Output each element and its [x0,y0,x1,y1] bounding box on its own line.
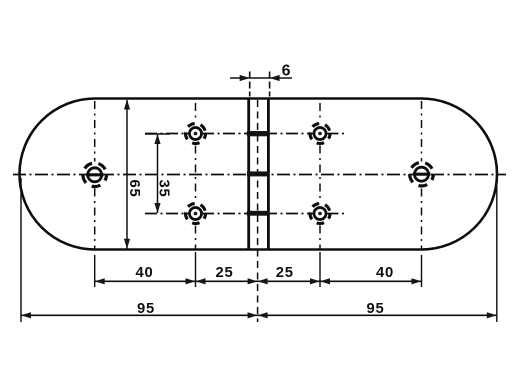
svg-text:40: 40 [135,265,153,281]
small hole bottom-right dashed ring [310,204,330,224]
row2 arrow at left [21,312,31,318]
knuckle band middle [247,171,270,176]
vertical centerline left small holes [195,103,197,122]
row1 arrows at x195.5 [186,278,196,284]
extension below left big hole [94,255,96,287]
vertical centerline right small holes [319,103,321,122]
row1 arrow at x421.5 [412,278,422,284]
dim 6 arrow right-pointing [240,75,250,81]
knuckle band bottom [247,211,270,216]
dim row1 line [95,280,422,282]
extension below right big hole [421,255,423,287]
plate outline [19,99,497,250]
dim row2 line [21,314,497,316]
svg-text:40: 40 [376,265,394,281]
thick centerline bar across right big hole [413,173,431,176]
dim 6 line [230,77,292,79]
big hole right circle [415,167,429,181]
dim 35 arrow up [154,134,160,144]
row1 arrows at center [248,278,258,284]
dim 65 arrow down [124,239,130,249]
extension below left small holes [195,252,197,287]
vertical centerline right big hole [421,101,423,162]
knuckle extension line right (for 6 dim) [269,72,271,97]
small hole top-left circle [190,128,202,140]
svg-text:25: 25 [276,265,294,281]
row2 arrow at right [487,312,497,318]
big hole left circle [88,168,102,182]
svg-text:65: 65 [126,179,142,197]
hinge pin centerline [257,100,259,322]
knuckle extension line left (for 6 dim) [249,72,251,97]
big hole right dashed ring [410,162,434,186]
extension line plate right tangent [496,178,498,322]
big hole left dashed ring [83,163,107,187]
svg-text:6: 6 [282,63,292,80]
small hole bottom-left circle [190,208,202,220]
hole row centerline top [145,133,189,135]
knuckle right edge [267,99,270,250]
knuckle band top [247,131,270,136]
svg-text:95: 95 [137,301,155,317]
dim 65 arrow up [124,100,130,110]
extension below right small holes [319,252,321,287]
dim 35 crossbar top [145,133,170,135]
vertical centerline left big hole [94,101,96,162]
row1 arrows at x320 [310,278,320,284]
small hole bottom-left dashed ring [186,204,206,224]
row1 arrow at x95 [95,278,105,284]
small hole top-right dashed ring [310,124,330,144]
dim 6 arrow left-pointing [270,75,280,81]
knuckle left edge [247,99,250,250]
hole row centerline bottom [145,213,189,215]
svg-text:35: 35 [156,179,172,197]
svg-text:25: 25 [215,265,233,281]
small hole top-right circle [314,128,326,140]
dim 35 arrow down [154,203,160,213]
small hole top-left dashed ring [186,124,206,144]
extension line plate left tangent [20,178,22,322]
row2 arrows at center [248,312,258,318]
main horizontal centerline [13,174,506,176]
dim 65 line [126,100,128,249]
small hole bottom-right circle [314,208,326,220]
thick centerline bar across left big hole [86,173,104,176]
svg-text:95: 95 [366,301,384,317]
dim 35 line [157,134,159,213]
